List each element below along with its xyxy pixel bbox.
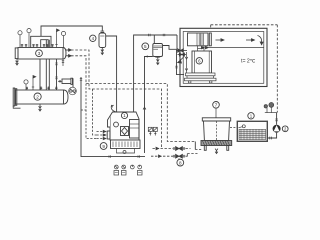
gauge bracket on discharge	[264, 103, 277, 113]
gauge PI3 on condenser	[61, 31, 65, 47]
label 9 (compressor unit)	[100, 143, 107, 150]
valve V2 flag on receiver	[32, 76, 36, 91]
compressor unit body	[107, 112, 139, 140]
cold room inner wall	[183, 32, 264, 84]
label 2 (pump)	[282, 126, 288, 132]
air cooler ceiling unit	[188, 33, 212, 46]
wire: top header line to oil separator U4	[41, 26, 102, 36]
label 4 (oil separator)	[90, 35, 96, 41]
wire: header drop to cold room valves	[176, 35, 178, 49]
receiver top nozzle ticks	[26, 87, 58, 91]
cold room outer wall	[180, 28, 267, 86]
pressure gauge PG4	[137, 165, 142, 175]
manifold bridge over condenser E3	[31, 36, 51, 47]
airflow arrow right with downturn	[246, 36, 263, 45]
inner manifold U	[41, 40, 49, 48]
gauge board K on water line	[148, 127, 157, 135]
wire: S5 left liquid leg down	[143, 55, 153, 153]
label 7 (cooling tower)	[213, 102, 220, 118]
wire: water drain line under compressor	[81, 77, 145, 157]
svg-text:8: 8	[179, 160, 182, 165]
dashed stub drain riser to control line	[81, 109, 87, 111]
pressure gauge PG3	[130, 165, 134, 169]
cooling tower T7	[201, 118, 232, 151]
gauge PI2 on condenser	[27, 29, 31, 48]
pump P2	[273, 125, 281, 133]
dashed control loop: drop into cold room	[210, 25, 212, 46]
ticks on drain riser	[80, 79, 82, 81]
label 6 (evaporator)	[196, 58, 202, 64]
valve V1 flag on condenser	[55, 29, 59, 48]
svg-text:t= 2℃: t= 2℃	[241, 59, 256, 65]
wire: compressor discharge riser to separator S5	[134, 35, 177, 112]
wire: HX to fan pump F8	[72, 78, 74, 87]
cooling tower row2 pipe	[151, 154, 198, 159]
compressor label 1	[121, 112, 127, 118]
dashed water line D2: condenser to tower feed	[71, 56, 195, 142]
wire: tank outlet to pump P	[267, 133, 276, 140]
wire: pipe through condenser to receiver nozzle A	[45, 40, 47, 90]
compressor suction hook	[111, 105, 116, 112]
compressor base with slats	[111, 140, 141, 149]
label 2 (receiver)	[34, 93, 41, 100]
heat exchanger HX (small vessel)	[58, 78, 73, 84]
dashed control drop to compressor left b	[93, 89, 97, 135]
receiver tank R2 shell	[13, 88, 68, 108]
label 8 (tower pump)	[177, 158, 184, 166]
dashed tower feed tail	[195, 149, 202, 151]
svg-text:2: 2	[36, 94, 39, 100]
wall crossing valves	[177, 49, 188, 56]
svg-text:5: 5	[144, 44, 147, 49]
dashed control loop: top run	[211, 24, 278, 26]
dashed water line D1: condenser to cooling tower row1	[71, 50, 162, 149]
label 3 (condenser)	[36, 50, 43, 57]
wire: condenser outlet arrow bottom	[66, 55, 72, 57]
pressure gauge PG1	[114, 165, 119, 175]
wire: condensate drop E3 to receiver	[39, 59, 41, 90]
dashed make-up line tower to tank	[230, 127, 237, 129]
svg-text:3: 3	[38, 51, 41, 56]
pedestal drip tray	[185, 73, 217, 83]
duct step under ceiling unit	[198, 46, 205, 51]
wire: pipe through condenser to receiver nozzle B	[48, 40, 50, 90]
air baffle line	[202, 47, 264, 49]
float valve in tank	[239, 125, 246, 128]
receiver bottom drain	[39, 104, 42, 111]
cooling tower row1 pipe	[153, 147, 191, 151]
wire: pump discharge riser	[275, 113, 278, 125]
gauge PI1 on condenser	[18, 31, 22, 48]
compressor underframe and drain fitting	[117, 149, 135, 154]
label 1 (water tank)	[248, 113, 254, 119]
dashed control loop: right riser	[276, 25, 278, 113]
airflow arrow mid	[216, 39, 224, 41]
gauge PI4 on receiver	[24, 80, 28, 90]
wire: liquid downleg outside wall	[175, 49, 184, 74]
U4 bottom drain arrows	[101, 48, 104, 55]
wire: drop into separator S5 top	[153, 35, 155, 44]
pressure gauge PG2	[121, 165, 126, 175]
separator S5 vessel	[153, 44, 163, 58]
condenser E3 shell	[15, 48, 66, 60]
label 5 (liquid separator)	[142, 43, 149, 50]
dashed control drop to compressor left a	[86, 84, 97, 139]
wire: tower feed drop solid	[194, 142, 196, 150]
wire: condenser outlet arrow top	[66, 49, 72, 51]
water tank W1	[237, 121, 267, 141]
wire: S5 right outlet to room	[163, 46, 177, 50]
oil separator U4 vessel	[99, 31, 106, 48]
fan pump F8	[69, 87, 77, 95]
evaporator feed pipes inside wall	[185, 52, 188, 73]
control stub arrows into compressor	[97, 130, 106, 139]
wire: condenser liquid line with ticks to receiver right nozzle	[55, 59, 57, 90]
condenser bottom stub right	[62, 59, 64, 66]
nozzle stubs on condenser top	[21, 44, 54, 47]
wire: U4 outlet down to compressor suction	[106, 36, 117, 112]
diagonal drain with arrow	[178, 57, 184, 64]
tower drain arrows	[215, 149, 218, 154]
condenser bottom drain arrows	[16, 59, 19, 65]
S5 bottom stub arrows	[156, 57, 159, 65]
ticks on discharge header	[149, 34, 165, 36]
svg-text:9: 9	[102, 144, 105, 149]
evaporator box	[192, 51, 212, 73]
